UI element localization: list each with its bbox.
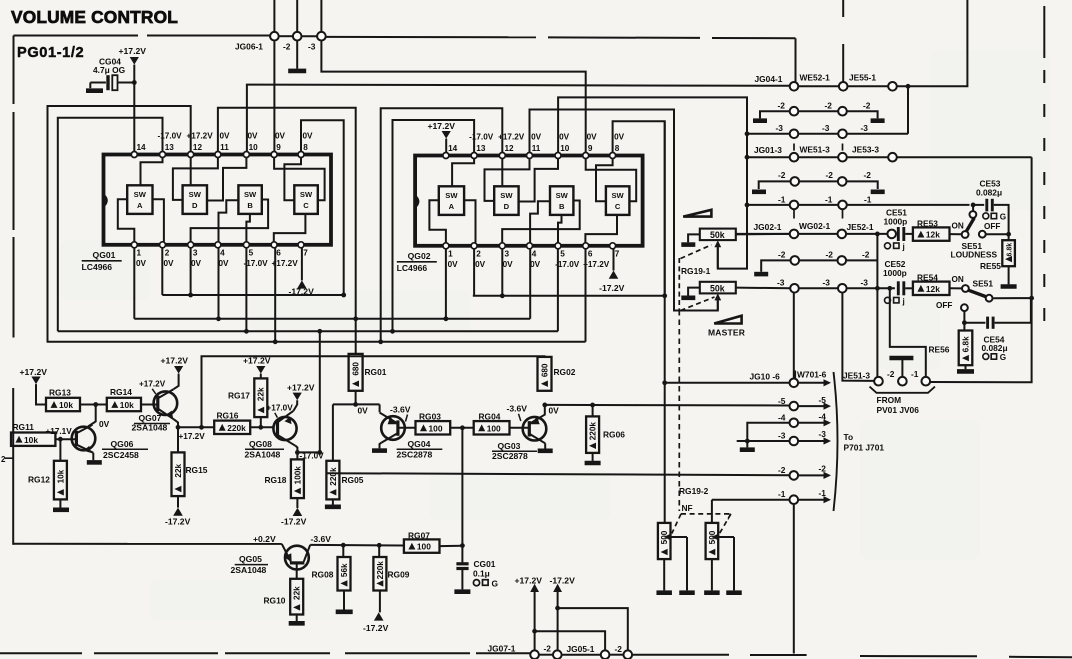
svg-text:100: 100 xyxy=(429,423,443,433)
svg-text:-2: -2 xyxy=(862,250,870,260)
row -1 block2 xyxy=(747,204,790,206)
scan artifacts (faint) xyxy=(60,50,1050,620)
svg-text:A: A xyxy=(449,202,455,211)
svg-text:10k: 10k xyxy=(24,435,38,445)
svg-text:WE52-1: WE52-1 xyxy=(800,73,831,83)
wire QG03 emitter to RG02 xyxy=(544,405,547,414)
wire QG01 pin13 -17.0V rail xyxy=(58,118,163,331)
connector JG06-2 xyxy=(296,0,298,32)
wire QG02 SW A out to pin2 xyxy=(464,200,475,243)
svg-text:0V: 0V xyxy=(275,132,286,141)
svg-text:0V: 0V xyxy=(530,260,541,269)
svg-text:RG11: RG11 xyxy=(13,422,35,432)
row JG01-3 xyxy=(747,156,790,158)
svg-text:13: 13 xyxy=(476,144,486,153)
svg-text:100k: 100k xyxy=(293,466,302,485)
connector JG04-1 xyxy=(790,82,799,91)
bus switch outputs QG01 pins2-3 xyxy=(162,294,343,296)
svg-text:-2: -2 xyxy=(778,170,786,180)
wire QG01 pin11 to SW D left xyxy=(173,158,218,200)
ground 50k-2 xyxy=(681,295,695,300)
switch SW D of QG01 xyxy=(183,185,207,214)
wire RG13 to RG14 xyxy=(80,404,107,406)
polarity mark CE51 xyxy=(885,243,891,249)
wire QG01 SW A out to pin2 xyxy=(153,199,164,242)
row -4 xyxy=(747,423,789,441)
svg-text:To: To xyxy=(844,432,854,442)
connector JG10-4 xyxy=(790,419,799,428)
svg-text:JG07-1: JG07-1 xyxy=(488,644,516,654)
wire QG01 pin10 to JG04-1 xyxy=(247,85,790,152)
svg-text:2: 2 xyxy=(165,249,170,258)
svg-text:100: 100 xyxy=(417,542,431,552)
svg-text:NF: NF xyxy=(682,503,693,513)
wiper 500 right xyxy=(712,534,719,541)
transistor QG05 xyxy=(285,546,309,570)
wire QG08 collector node -17.0V xyxy=(296,446,298,460)
wire JE52 node down through -3 row to JE51-3 xyxy=(876,234,878,377)
svg-text:2SC2878: 2SC2878 xyxy=(492,451,528,461)
wire 500-right top to row -1 xyxy=(711,500,713,523)
svg-text:5: 5 xyxy=(560,250,565,259)
wire -2 row xyxy=(798,110,838,112)
wire 50k-2 left to ground xyxy=(688,288,700,296)
bus +17.2V rail xyxy=(47,341,586,343)
connector JE51-2 xyxy=(898,377,907,386)
connector -3 a xyxy=(790,130,799,139)
svg-text:RG16: RG16 xyxy=(217,411,239,421)
power -17.2V below RG09 xyxy=(379,591,381,613)
capacitor CG04 xyxy=(90,82,106,84)
svg-text:G: G xyxy=(1000,353,1006,362)
svg-text:SE51: SE51 xyxy=(973,279,994,289)
svg-text:RE56: RE56 xyxy=(929,345,950,355)
switch SE51 upper xyxy=(962,231,969,238)
ground JG10-3 xyxy=(746,441,748,447)
svg-text:P701 J701: P701 J701 xyxy=(844,443,885,453)
wire QG02 pin8 to SW C left xyxy=(596,159,613,202)
svg-text:11: 11 xyxy=(220,143,229,152)
svg-text:+17.2V: +17.2V xyxy=(428,121,456,131)
svg-text:RE55: RE55 xyxy=(980,261,1001,271)
wire QG01 SW A in to pin1 xyxy=(118,199,135,242)
svg-text:-2: -2 xyxy=(544,644,552,654)
wire RG07 to CG01 node xyxy=(440,545,463,547)
wire QG01 pin11 line xyxy=(218,108,356,354)
switch SE51 lower xyxy=(962,285,969,292)
svg-text:LOUDNESS: LOUDNESS xyxy=(951,250,998,260)
svg-text:56k: 56k xyxy=(340,563,349,577)
svg-text:-2: -2 xyxy=(778,250,786,260)
bus switch inputs pins1-4 xyxy=(134,318,530,320)
svg-text:7: 7 xyxy=(727,513,732,522)
resistor RE55 xyxy=(1008,234,1010,240)
svg-text:W701-6: W701-6 xyxy=(797,369,827,379)
ground QG06 emitter xyxy=(92,453,94,460)
wire QG02 pin8 wrap xyxy=(613,121,665,295)
svg-text:JG01-3: JG01-3 xyxy=(754,145,782,155)
potentiometer 50k upper xyxy=(700,229,736,241)
connector -3 d xyxy=(838,284,847,293)
svg-text:-2: -2 xyxy=(819,464,827,474)
ground RG08 xyxy=(343,591,345,610)
wire JG05-2 to -17.2V riser xyxy=(558,608,628,650)
ground QG04 collector xyxy=(380,443,382,449)
border segment after JG06 xyxy=(279,35,294,37)
svg-text:12k: 12k xyxy=(926,284,940,294)
wire RG11 to QG06 base xyxy=(55,438,75,440)
connector JG10-6 xyxy=(790,379,799,388)
svg-text:-3: -3 xyxy=(776,123,784,133)
wire +17.2V to QG01 pin14 xyxy=(133,65,135,152)
svg-text:-4: -4 xyxy=(819,411,827,421)
row -2 long wire xyxy=(327,473,790,475)
svg-text:C: C xyxy=(615,202,621,211)
svg-text:1000p: 1000p xyxy=(884,217,908,227)
wedge indicator MASTER xyxy=(714,316,741,324)
svg-text:D: D xyxy=(504,202,510,211)
power -17.2V below RG18 xyxy=(296,498,298,508)
svg-text:6: 6 xyxy=(276,249,281,258)
svg-text:50k: 50k xyxy=(710,230,725,240)
svg-text:RG14: RG14 xyxy=(110,387,132,397)
coupling dashes RG19-1 xyxy=(681,245,712,259)
ground wiper 500-right xyxy=(726,590,742,595)
svg-text:220k: 220k xyxy=(376,561,385,580)
ground RG10 xyxy=(296,615,298,622)
svg-text:+17.2V: +17.2V xyxy=(20,367,48,377)
wire SE51 lower to border xyxy=(993,297,1031,299)
svg-text:SW: SW xyxy=(611,191,624,200)
wire QG01 pin7 to -17.2V xyxy=(301,248,303,280)
svg-text:-3: -3 xyxy=(861,277,869,287)
svg-text:-2: -2 xyxy=(778,465,786,475)
svg-text:6.8k: 6.8k xyxy=(1007,243,1014,257)
wedge indicator above 50k pot 1 xyxy=(683,210,711,217)
svg-text:RG09: RG09 xyxy=(388,570,410,580)
svg-text:+17.2V: +17.2V xyxy=(583,260,610,269)
svg-text:-17.0V: -17.0V xyxy=(158,132,183,141)
wire QG01 pin9 to SW C right xyxy=(274,158,325,201)
connector -3 b xyxy=(838,130,847,139)
svg-text:14: 14 xyxy=(448,144,458,153)
row -2 block1 left ground xyxy=(760,111,790,118)
resistor RG09 xyxy=(378,545,380,557)
svg-text:JG05-1: JG05-1 xyxy=(567,644,595,654)
svg-text:SW: SW xyxy=(556,191,569,200)
svg-text:0V: 0V xyxy=(303,132,314,141)
svg-text:2SA1048: 2SA1048 xyxy=(132,423,168,433)
wire QG01 SW B out to pin3 xyxy=(191,200,269,242)
svg-text:QG05: QG05 xyxy=(239,554,262,564)
switch SW C of QG02 xyxy=(606,186,630,215)
svg-text:+17.2V: +17.2V xyxy=(243,356,271,366)
svg-text:QG06: QG06 xyxy=(111,439,134,449)
wire QG02 SW A in to pin1 xyxy=(429,200,446,243)
wire 500-left bottom xyxy=(663,559,665,590)
svg-text:-17.0V: -17.0V xyxy=(469,133,494,142)
svg-text:0V: 0V xyxy=(248,132,259,141)
ground 500-right xyxy=(704,590,720,595)
wire WE52-1 up xyxy=(842,0,844,17)
svg-text:JG02-1: JG02-1 xyxy=(754,222,782,232)
svg-text:0V: 0V xyxy=(219,259,230,268)
wire QG01 pin10 to SW D right xyxy=(207,158,246,201)
resistor RG06 xyxy=(592,405,594,416)
svg-text:RG01: RG01 xyxy=(365,367,387,377)
svg-text:-3.6V: -3.6V xyxy=(507,404,528,414)
svg-text:5: 5 xyxy=(249,249,254,258)
svg-text:-3: -3 xyxy=(822,123,830,133)
resistor RG05 xyxy=(332,404,334,460)
svg-text:-2: -2 xyxy=(283,42,291,52)
wiper 50k-1 xyxy=(714,240,721,247)
wire QG01 pin13 to SW A ctl xyxy=(141,158,163,186)
svg-text:10: 10 xyxy=(560,144,570,153)
border PG01 left side xyxy=(13,36,15,105)
wire JE55-1 to top right xyxy=(897,0,968,86)
svg-text:LC4966: LC4966 xyxy=(397,263,428,273)
capacitor CE54 xyxy=(964,322,985,324)
svg-text:RG08: RG08 xyxy=(312,570,334,580)
svg-text:12: 12 xyxy=(193,143,203,152)
svg-text:PG01-1/2: PG01-1/2 xyxy=(17,45,84,61)
wire emitter QG05 from border xyxy=(13,543,282,545)
svg-text:8: 8 xyxy=(615,144,620,153)
wire QG02 pin9 to SW C right xyxy=(586,159,637,202)
svg-text:1000p: 1000p xyxy=(883,268,907,278)
svg-text:-3: -3 xyxy=(823,277,831,287)
svg-text:CG01: CG01 xyxy=(474,559,496,569)
svg-text:SW: SW xyxy=(500,191,513,200)
svg-text:RG19-1: RG19-1 xyxy=(681,266,711,276)
resistor RG17 xyxy=(260,417,262,427)
svg-text:QG02: QG02 xyxy=(408,251,431,261)
svg-text:G: G xyxy=(492,579,499,589)
ground CG04 xyxy=(89,83,91,89)
svg-text:-5: -5 xyxy=(778,396,786,406)
svg-text:22k: 22k xyxy=(257,387,266,401)
connector WG02-1 xyxy=(838,230,847,239)
connector JG05-2 xyxy=(624,650,633,659)
svg-text:QG03: QG03 xyxy=(498,441,521,451)
svg-text:-3: -3 xyxy=(861,123,869,133)
switch SW B of QG02 xyxy=(550,186,573,215)
row -2 block1 right ground xyxy=(847,111,878,118)
wire QG01 pin8 wrap xyxy=(301,120,344,295)
svg-text:0V: 0V xyxy=(549,406,560,416)
svg-text:0V: 0V xyxy=(220,132,231,141)
svg-text:QG08: QG08 xyxy=(249,439,272,449)
wire JG06-3 to QG02 pin9 xyxy=(321,40,585,152)
svg-text:13: 13 xyxy=(165,143,175,152)
wire QG01 pin5 to SW B ctl xyxy=(246,214,250,242)
svg-text:10k: 10k xyxy=(120,400,134,410)
wire -3 circle to JG10-6 xyxy=(793,293,795,379)
IC QG01 pins xyxy=(131,152,137,158)
bus QG07 collector to RG02 xyxy=(202,356,545,427)
transistor QG04 xyxy=(381,416,405,440)
connector -2 f xyxy=(838,256,847,265)
ground wiper 500-left xyxy=(679,590,695,595)
svg-text:10: 10 xyxy=(249,143,259,152)
svg-text:+17.2V: +17.2V xyxy=(161,356,189,366)
wire -3 and -1 riser x747 xyxy=(746,97,748,268)
svg-text:680: 680 xyxy=(352,362,361,376)
svg-text:-1: -1 xyxy=(864,194,872,204)
svg-text:-1: -1 xyxy=(778,194,786,204)
polarity mark CE52 xyxy=(885,297,891,303)
potentiometer 500 left xyxy=(658,523,671,559)
switch SW A of QG02 xyxy=(439,186,464,215)
wire -3b circle down to JE51-3 xyxy=(842,293,873,381)
connector JG01-3 xyxy=(790,153,799,162)
svg-text:2: 2 xyxy=(476,250,481,259)
svg-text:SW: SW xyxy=(244,190,257,199)
svg-text:0V: 0V xyxy=(559,133,570,142)
svg-text:RG13: RG13 xyxy=(49,388,71,398)
row -1 xyxy=(712,499,790,501)
wire QG05 base to RG10 xyxy=(296,565,298,579)
svg-text:-1: -1 xyxy=(819,488,827,498)
wire QG02 pin11 line to volume pot wiper xyxy=(530,110,718,311)
wire row-6 riser from QG02 outputs xyxy=(664,121,666,523)
connector JE51-3 xyxy=(874,377,883,386)
svg-text:-1: -1 xyxy=(778,489,786,499)
wire QG01 pin8 to SW C left xyxy=(284,158,301,201)
svg-text:1: 1 xyxy=(448,250,453,259)
connector JG07-1 xyxy=(530,650,539,659)
svg-text:0V: 0V xyxy=(164,259,175,268)
svg-text:0V: 0V xyxy=(191,259,202,268)
svg-text:2SC2878: 2SC2878 xyxy=(397,450,433,460)
svg-text:JE55-1: JE55-1 xyxy=(849,73,876,83)
svg-text:-17.2V: -17.2V xyxy=(599,283,625,293)
wire RG14 to QG07 base xyxy=(141,404,157,406)
svg-text:0.082μ: 0.082μ xyxy=(976,188,1002,198)
svg-text:QG01: QG01 xyxy=(93,250,116,260)
wire RG16 to QG08 base xyxy=(250,426,274,428)
connector WE51-3 xyxy=(838,153,847,162)
svg-text:RG17: RG17 xyxy=(228,391,250,401)
wire JG10-1 down to bottom border xyxy=(793,504,795,654)
border PG01 bottom dashes xyxy=(0,652,82,654)
svg-text:B: B xyxy=(247,201,253,210)
svg-text:+17.2V: +17.2V xyxy=(179,432,206,441)
svg-text:-1: -1 xyxy=(825,194,833,204)
svg-text:-1: -1 xyxy=(911,369,919,379)
power -17.2V at QG02 pin7 xyxy=(609,271,619,279)
ground RE55 xyxy=(1008,266,1010,284)
svg-text:2SA1048: 2SA1048 xyxy=(245,450,281,460)
IC QG01 body xyxy=(104,155,332,245)
wire JG05-1 to +17.2V riser xyxy=(535,631,606,650)
connector -2 d xyxy=(838,177,847,186)
svg-text:j: j xyxy=(902,297,905,306)
svg-text:JG10 -6: JG10 -6 xyxy=(750,372,781,382)
bus switch outputs QG02 pins2-3 xyxy=(473,295,665,297)
wire RE53 to SE51 on contact xyxy=(950,233,962,235)
svg-text:MASTER: MASTER xyxy=(708,328,745,338)
row -3 block1 xyxy=(747,133,790,135)
svg-text:-3: -3 xyxy=(819,429,827,439)
wire QG02 pin12 +17.2V rail xyxy=(381,108,503,342)
wire QG02 pin6 to SW C ctl xyxy=(585,215,617,243)
transistor QG03 xyxy=(523,417,547,441)
connector JG06-1 xyxy=(273,0,275,32)
switch SW C of QG01 xyxy=(294,185,318,214)
row JG02 xyxy=(736,233,790,235)
svg-text:QG04: QG04 xyxy=(408,439,431,449)
svg-text:+17.2V: +17.2V xyxy=(139,380,166,389)
svg-text:0V: 0V xyxy=(503,260,514,269)
svg-text:-2: -2 xyxy=(887,369,895,379)
svg-text:0V: 0V xyxy=(136,259,147,268)
wire JE51-1 riser to -3 node xyxy=(890,288,926,377)
wire QG03 output row -5 xyxy=(545,404,790,407)
svg-text:220k: 220k xyxy=(227,423,246,433)
wire RE54 to SE51 lower xyxy=(950,287,962,289)
power -17.2V below RG15 xyxy=(177,496,179,508)
svg-text:G: G xyxy=(1000,213,1006,222)
polarity mark CE53 xyxy=(983,213,989,219)
svg-text:-2: -2 xyxy=(615,644,623,654)
svg-text:10k: 10k xyxy=(56,469,65,483)
svg-text:0V: 0V xyxy=(99,419,110,429)
svg-text:-2: -2 xyxy=(826,250,834,260)
wire RG03 to center node xyxy=(450,427,474,429)
wire -3 row riser xyxy=(907,86,909,134)
svg-text:0V: 0V xyxy=(358,406,369,416)
wire QG06 collector to RG13-RG14 node xyxy=(88,405,96,427)
resistor RG12 xyxy=(59,439,61,461)
svg-text:RG05: RG05 xyxy=(342,475,364,485)
svg-text:-2: -2 xyxy=(826,170,834,180)
svg-text:OFF: OFF xyxy=(936,301,952,310)
resistor RG01 xyxy=(349,354,363,391)
svg-text:SW: SW xyxy=(300,190,313,199)
svg-text:-3.6V: -3.6V xyxy=(311,534,332,544)
connector JG10-3 xyxy=(790,437,799,446)
svg-text:+17.2V: +17.2V xyxy=(515,576,543,586)
wire QG02 pin10 to SW D right xyxy=(519,159,558,202)
wire border corner down to JG04-1 xyxy=(795,38,797,82)
border PG01 top-left xyxy=(14,35,139,37)
svg-text:4: 4 xyxy=(532,250,537,259)
svg-text:JE52-1: JE52-1 xyxy=(847,222,874,232)
svg-text:+17.2V: +17.2V xyxy=(119,46,147,56)
svg-text:2SC2458: 2SC2458 xyxy=(103,450,139,460)
svg-text:-3: -3 xyxy=(777,277,785,287)
svg-text:JE51-3: JE51-3 xyxy=(843,371,870,381)
svg-text:RG02: RG02 xyxy=(554,367,576,377)
svg-text:22k: 22k xyxy=(293,586,302,600)
ground RE56 xyxy=(965,365,967,369)
svg-text:QG07: QG07 xyxy=(139,413,162,423)
connector -1 b xyxy=(838,201,847,210)
svg-text:j: j xyxy=(902,243,905,252)
wire QG02 pin10 line xyxy=(558,97,747,268)
svg-text:+0.2V: +0.2V xyxy=(253,534,276,544)
wire QG02 pin11 to SW D left xyxy=(485,159,530,201)
svg-text:RG06: RG06 xyxy=(603,430,625,440)
connector JG02-1 xyxy=(790,230,799,239)
svg-text:ON: ON xyxy=(952,275,964,284)
wire RG01 to QG04 emitter xyxy=(333,403,380,405)
wire QG01 pin9 from JG06-1 xyxy=(273,40,275,151)
connector pair ticks xyxy=(793,210,795,219)
svg-text:0V: 0V xyxy=(531,133,542,142)
